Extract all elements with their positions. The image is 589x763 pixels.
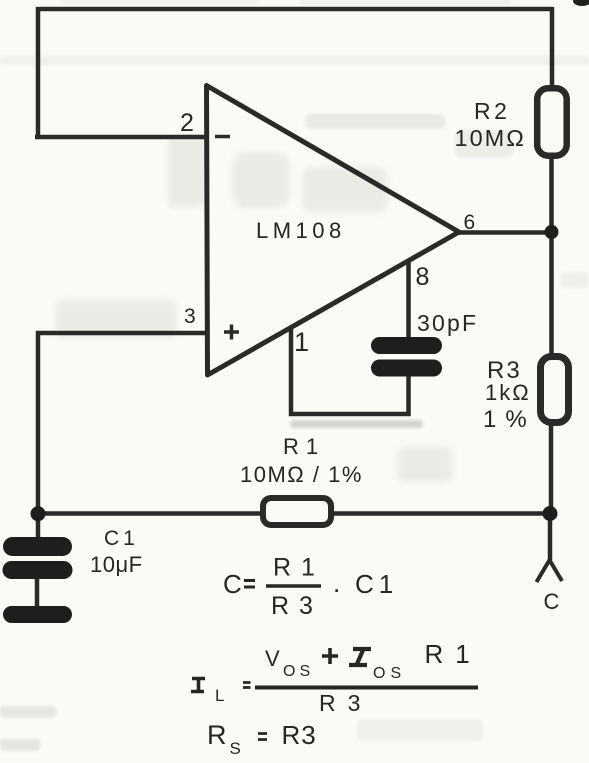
svg-text:1%: 1% (483, 406, 536, 433)
svg-text:10μF: 10μF (90, 552, 143, 577)
formula C = R1/R3 . C1 (223, 554, 398, 621)
svg-text:C: C (544, 589, 560, 614)
svg-text:R1: R1 (273, 554, 325, 582)
svg-text:R1: R1 (425, 639, 482, 669)
wire: right rail to R2 (550, 7, 555, 88)
svg-text:S: S (230, 739, 241, 758)
svg-text:6: 6 (464, 211, 476, 234)
svg-text:C: C (223, 569, 242, 599)
capacitor 30pF (371, 337, 442, 354)
terminal C chevron (537, 560, 563, 582)
svg-text:10MΩ: 10MΩ (455, 125, 526, 151)
wire: node 6 to R3 (549, 232, 554, 356)
wire: to pin 3 (36, 331, 206, 336)
formula RS = R3 (207, 720, 317, 758)
wire: pin 8 to 30pF (406, 261, 411, 340)
wire: bottom rail (38, 511, 550, 516)
svg-text:L: L (215, 686, 224, 705)
svg-text:10MΩ / 1%: 10MΩ / 1% (240, 462, 363, 487)
svg-text:LM108: LM108 (256, 218, 346, 243)
svg-text:30pF: 30pF (417, 310, 478, 336)
svg-text:V: V (265, 646, 280, 671)
resistor R2 (537, 88, 567, 156)
svg-text:C1: C1 (355, 569, 398, 599)
wire: feedback top (38, 7, 553, 12)
svg-text:R2: R2 (474, 98, 510, 124)
svg-text:.: . (333, 568, 340, 598)
wire: R3 to bottom node (549, 424, 554, 514)
svg-text:OS: OS (283, 663, 314, 680)
node C junction (543, 506, 558, 521)
capacitor C1 (3, 537, 72, 556)
svg-text:R3: R3 (271, 592, 323, 620)
wire: left vertical (bottom) (36, 331, 41, 514)
hand-drawn serif I (191, 679, 205, 692)
wire: node to C1 (36, 514, 41, 540)
svg-text:R1: R1 (283, 434, 325, 459)
node A (op-amp output junction) (545, 225, 559, 239)
resistor R1 (263, 498, 331, 525)
corner blob artifact (573, 0, 589, 6)
wire: R2 to node 6 (549, 158, 554, 232)
formula IL = (Vos + Ios R1)/R3 (191, 639, 482, 716)
resistor R3 (541, 357, 569, 423)
svg-text:C1: C1 (104, 527, 139, 550)
op-amp U1 triangle (207, 86, 460, 376)
minus input mark (215, 135, 230, 139)
hand-drawn bold italic I (349, 649, 371, 665)
svg-text:R3: R3 (282, 720, 317, 750)
wire: left vertical (top loop) (36, 7, 41, 137)
svg-text:R3: R3 (319, 690, 372, 716)
wire: to pin 2 (35, 135, 206, 140)
wire: bottom node to terminal C (548, 514, 553, 560)
svg-text:OS: OS (373, 665, 406, 682)
svg-text:1kΩ: 1kΩ (485, 380, 531, 405)
node B (bottom-left junction) (31, 506, 46, 521)
svg-text:R: R (207, 720, 227, 750)
svg-text:1: 1 (294, 327, 309, 357)
wire: pin 6 output (457, 230, 551, 235)
wire: pin 1 loop to 30pF (291, 328, 409, 414)
svg-text:3: 3 (184, 305, 196, 328)
svg-text:2: 2 (180, 109, 194, 137)
wire: C1 plate to ground bar (35, 578, 40, 607)
plus input mark (224, 325, 239, 340)
svg-text:8: 8 (416, 263, 430, 291)
ground bar (3, 606, 72, 623)
